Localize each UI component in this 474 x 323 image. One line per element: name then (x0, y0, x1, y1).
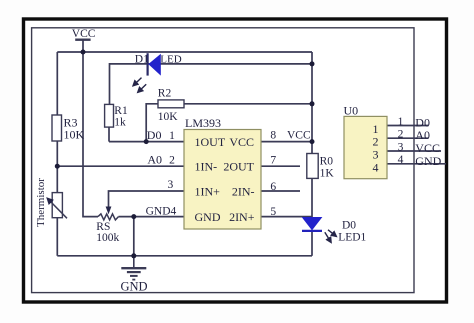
LM393 pin names row1 (195, 135, 255, 149)
junction pin8 at R0 (310, 139, 315, 144)
wire A0 node to pin2 (57, 165, 184, 167)
svg-text:RS: RS (96, 221, 110, 233)
wire VCC drop to RS left (83, 52, 98, 217)
wire A0 node to thermistor (56, 166, 58, 192)
svg-text:2: 2 (398, 129, 404, 141)
svg-text:1K: 1K (320, 167, 335, 179)
svg-text:100k: 100k (96, 232, 119, 244)
label net D0 pin1 (147, 128, 175, 142)
LM393 pin names row3 (195, 184, 255, 198)
wire VCC top rail (57, 51, 312, 53)
svg-text:2IN+: 2IN+ (229, 210, 255, 224)
svg-text:GND: GND (195, 210, 221, 224)
junction D1 row at VCC column (310, 61, 315, 66)
svg-text:1IN-: 1IN- (195, 160, 218, 174)
svg-text:4: 4 (398, 154, 404, 166)
wire VCC column pin8 to R0 (311, 142, 313, 154)
svg-text:3: 3 (398, 141, 404, 153)
LED D0 (302, 217, 367, 243)
svg-text:VCC: VCC (229, 135, 254, 149)
wire D1 row from R1 top (110, 64, 313, 105)
svg-text:LED1: LED1 (338, 231, 366, 243)
svg-text:1: 1 (169, 130, 175, 142)
svg-text:D1: D1 (135, 54, 149, 66)
U0 pin numbers inside (373, 122, 379, 174)
svg-text:1: 1 (398, 116, 404, 128)
U0 pin numbers outside (398, 116, 404, 166)
wire R1 bottom to D0 row (108, 127, 110, 142)
junction R2 row at VCC column (310, 101, 315, 106)
wire R0 to LED D0 (311, 178, 313, 217)
LED D1 (133, 53, 182, 92)
svg-text:U0: U0 (344, 103, 359, 117)
wire pin6 stub (261, 190, 300, 192)
svg-text:8: 8 (270, 130, 276, 142)
svg-text:7: 7 (270, 155, 276, 167)
outer frame border (24, 19, 447, 302)
label net A0 pin2 (147, 152, 175, 166)
wire thermistor to bottom rail (56, 218, 58, 256)
junction RS right (131, 214, 136, 219)
svg-text:R2: R2 (158, 88, 172, 100)
LM393 pin names row4 (195, 210, 255, 224)
svg-text:D0: D0 (147, 128, 162, 142)
wire R3 to A0 node (56, 141, 58, 166)
svg-text:6: 6 (270, 181, 276, 193)
wire D0 node up to R2 (146, 104, 158, 142)
wire LED D0 cathode to ground rail (311, 231, 313, 256)
ground symbol (121, 256, 146, 280)
svg-text:GND: GND (415, 154, 441, 168)
svg-text:A0: A0 (147, 152, 162, 166)
svg-text:3: 3 (168, 179, 174, 191)
svg-text:2IN-: 2IN- (232, 184, 255, 198)
label pin8 VCC (270, 130, 311, 142)
svg-text:10K: 10K (64, 128, 85, 142)
thermistor RT1 (35, 178, 67, 227)
wire D0 row pin1 (109, 141, 184, 143)
wire VCC rail to R3 (56, 52, 58, 115)
wire pin5 to LED node (261, 216, 312, 218)
junction VCC top (81, 50, 86, 55)
svg-text:2: 2 (169, 154, 175, 166)
wire pin8 VCC (261, 141, 312, 143)
wire U0 pin1 (387, 125, 429, 127)
wire VCC column from top rail (311, 52, 313, 142)
LM393 pin names row2 (195, 160, 255, 174)
svg-text:2OUT: 2OUT (223, 160, 254, 174)
svg-text:4: 4 (373, 160, 379, 174)
svg-text:1IN+: 1IN+ (195, 184, 221, 198)
wire R2 right to VCC column (184, 103, 312, 105)
svg-text:D0: D0 (342, 220, 356, 232)
svg-text:VCC: VCC (287, 130, 311, 142)
svg-text:GND: GND (120, 280, 147, 294)
svg-text:1OUT: 1OUT (195, 135, 226, 149)
junction D0 node (144, 139, 149, 144)
wire U0 pin3 (387, 150, 441, 152)
wire RS node down to ground rail (133, 217, 135, 256)
resistor R3 (52, 115, 85, 142)
op-amp U1 LM393 body (184, 130, 261, 230)
svg-text:Thermistor: Thermistor (35, 178, 47, 227)
svg-text:5: 5 (270, 206, 276, 218)
wire pin7 stub (261, 165, 300, 167)
wire pin3 to RS wiper (109, 191, 185, 207)
svg-text:R0: R0 (320, 155, 334, 167)
wire bottom ground rail (57, 255, 312, 257)
wire RS right to pin4 (119, 216, 185, 218)
svg-text:VCC: VCC (72, 28, 96, 40)
svg-text:R1: R1 (114, 105, 128, 117)
junction ground rail (131, 253, 136, 258)
resistor R0 (307, 154, 335, 180)
svg-text:10K: 10K (158, 111, 179, 123)
potentiometer RS 100k (96, 207, 119, 245)
wire U0 pin2 (387, 137, 429, 139)
inner sheet border (32, 28, 414, 293)
svg-text:LED: LED (160, 54, 181, 66)
resistor R2 (158, 88, 184, 124)
svg-text:1k: 1k (114, 116, 126, 128)
junction A0 node (55, 164, 60, 169)
connector U0 body (344, 116, 387, 178)
wire U0 pin4 (387, 163, 446, 165)
power VCC symbol (75, 40, 90, 52)
resistor R1 (105, 104, 128, 128)
svg-text:GND4: GND4 (146, 206, 177, 218)
svg-text:LM393: LM393 (185, 116, 221, 130)
